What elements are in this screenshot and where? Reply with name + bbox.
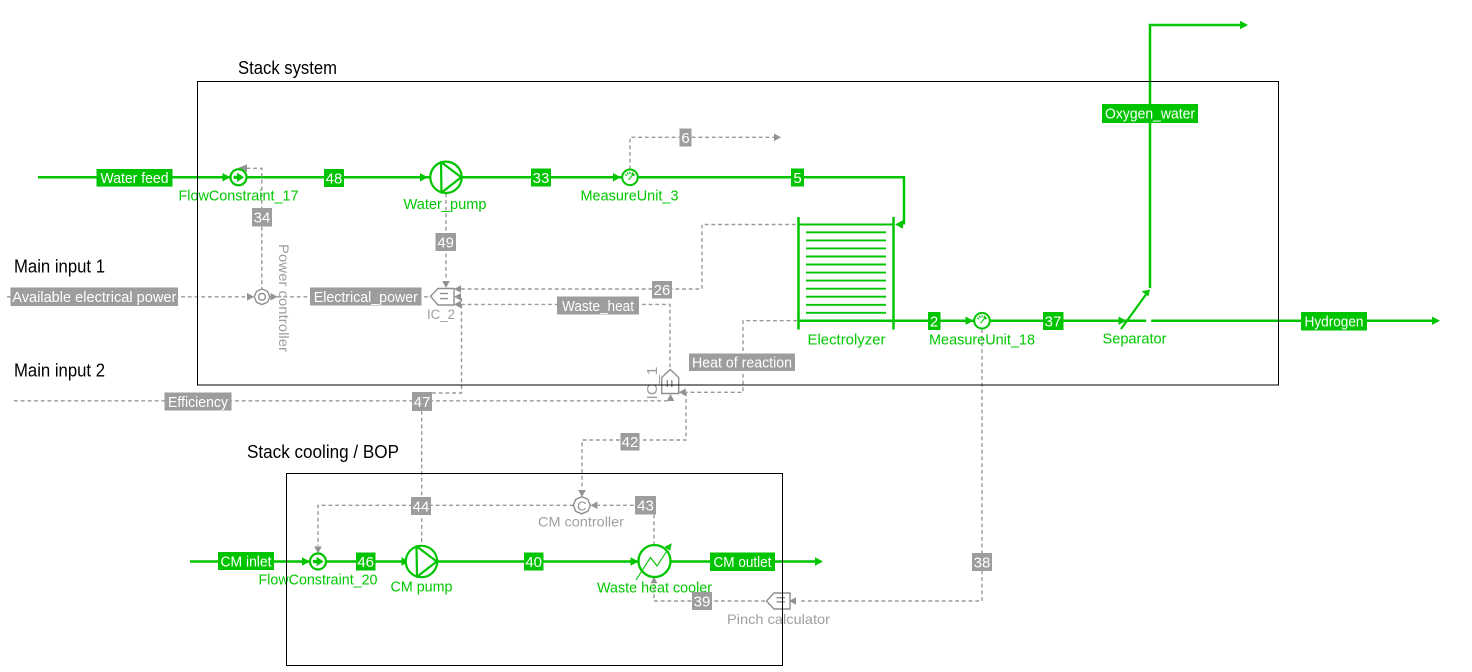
node tag 33	[531, 169, 551, 188]
svg-text:6: 6	[681, 130, 689, 147]
wire Power controller up to FlowConstraint_17	[247, 168, 262, 289]
svg-text:MeasureUnit_18: MeasureUnit_18	[929, 333, 1035, 349]
arrow into FlowConstraint_17	[223, 173, 231, 181]
node Water feed	[97, 169, 173, 187]
wire MeasureUnit_18 down link 38	[800, 329, 982, 601]
arrow into CM pump	[402, 557, 410, 565]
svg-text:CM outlet: CM outlet	[714, 554, 773, 571]
svg-text:Water_pump: Water_pump	[404, 197, 487, 213]
wire 47 link IC_2 to CM pump	[432, 298, 462, 393]
svg-text:47: 47	[414, 394, 431, 411]
node CM inlet	[218, 552, 274, 571]
node tag 34	[252, 208, 272, 227]
svg-text:42: 42	[622, 434, 639, 451]
node tag 39	[692, 592, 712, 611]
svg-text:FlowConstraint_17: FlowConstraint_17	[179, 189, 299, 205]
node tag 37	[1043, 312, 1064, 331]
arrow hydrogen line end	[1432, 317, 1440, 325]
node Hydrogen	[1301, 312, 1367, 331]
svg-text:Pinch calculator: Pinch calculator	[727, 611, 830, 627]
component FlowConstraint_20	[310, 554, 326, 570]
component IC_2	[431, 289, 455, 306]
component MeasureUnit_18 gauge	[974, 313, 990, 329]
wire MeasureUnit_3 up link 6	[630, 137, 774, 169]
svg-text:5: 5	[793, 170, 801, 187]
svg-text:37: 37	[1045, 314, 1062, 331]
arrow gray into Power controller	[247, 293, 254, 301]
wire 43 link Waste heat cooler to CM controller	[598, 505, 654, 545]
node tag 6	[680, 129, 692, 148]
svg-text:Stack system: Stack system	[238, 57, 337, 78]
arrow into FlowConstraint_20	[302, 557, 310, 565]
component Pinch calculator	[767, 593, 791, 609]
svg-text:CM inlet: CM inlet	[221, 554, 273, 571]
node Efficiency	[165, 393, 232, 412]
node Waste_heat	[557, 297, 639, 316]
arrow into Water pump	[420, 173, 428, 181]
svg-text:2: 2	[930, 314, 938, 331]
svg-text:Stack cooling / BOP: Stack cooling / BOP	[247, 441, 399, 462]
svg-text:26: 26	[654, 282, 671, 299]
arrow into MeasureUnit_18	[966, 317, 974, 325]
arrow gray out of Power controller right	[271, 293, 278, 301]
component FlowConstraint_17	[231, 169, 247, 185]
wire 44 link CM controller to FlowConstraint_20	[318, 505, 574, 546]
svg-text:Water feed: Water feed	[101, 170, 169, 187]
node tag 26	[652, 281, 672, 299]
svg-text:46: 46	[357, 554, 374, 571]
node tag 46	[356, 553, 376, 572]
wire Efficiency to IC_1	[14, 400, 671, 402]
wire 26 link Electrolyzer to IC_2	[461, 225, 797, 290]
component Waste heat cooler	[636, 543, 672, 580]
node tag 38	[972, 553, 992, 572]
wire 47 drop to CM pump	[421, 411, 423, 545]
wire Power controller to Electrical_power to IC_2	[270, 296, 430, 298]
arrow gray into FlowConstraint_17 top	[238, 164, 248, 172]
wire Waste_heat link IC_1 to IC_2	[461, 304, 670, 368]
svg-text:Available electrical power: Available electrical power	[12, 289, 176, 306]
component MeasureUnit_3 gauge	[622, 170, 638, 186]
component Electrolyzer	[799, 217, 895, 330]
wire hydrogen output line	[799, 319, 1439, 322]
svg-text:Main input 1: Main input 1	[14, 256, 105, 277]
wire oxygen riser	[1150, 25, 1246, 288]
node tag 47	[412, 392, 432, 411]
arrow oxygen line end	[1240, 21, 1248, 29]
node tag 49	[436, 233, 457, 252]
arrow gray into IC_2 right lower (Waste_heat)	[454, 301, 461, 309]
node Heat of reaction	[689, 354, 795, 372]
arrow into MeasureUnit_3	[613, 173, 621, 181]
svg-text:Electrolyzer: Electrolyzer	[808, 333, 886, 349]
arrow CM outlet line end	[815, 557, 823, 565]
svg-text:Electrical_power: Electrical_power	[314, 289, 418, 306]
svg-text:Heat of reaction: Heat of reaction	[692, 355, 792, 372]
wire Water pump down to IC_2	[445, 193, 447, 280]
svg-text:43: 43	[637, 498, 654, 515]
arrow gray into Pinch calculator right	[789, 597, 796, 605]
svg-text:CM pump: CM pump	[391, 580, 453, 596]
svg-text:Hydrogen: Hydrogen	[1305, 314, 1364, 331]
component Power controller	[253, 287, 272, 306]
svg-text:Oxygen_water: Oxygen_water	[1105, 106, 1195, 123]
arrow into Electrolyzer top	[895, 220, 903, 228]
arrow gray into IC_2 right upper (26)	[454, 285, 461, 293]
svg-text:Main input 2: Main input 2	[14, 360, 105, 381]
wire Pinch calculator to Waste heat cooler	[654, 584, 765, 601]
node tag 43	[635, 496, 656, 515]
svg-text:Power controller: Power controller	[276, 244, 292, 352]
svg-text:34: 34	[254, 210, 271, 227]
arrow gray link 6 end	[774, 134, 781, 142]
node tag 48	[324, 169, 344, 188]
svg-text:39: 39	[694, 594, 711, 611]
wire water feed main line	[38, 177, 904, 224]
node tag 5	[791, 169, 804, 188]
svg-text:CM controller: CM controller	[538, 514, 624, 530]
svg-text:Efficiency: Efficiency	[168, 394, 228, 411]
svg-text:IC_2: IC_2	[427, 307, 455, 322]
arrow gray into FlowConstraint_20 top	[314, 547, 322, 554]
svg-text:MeasureUnit_3: MeasureUnit_3	[581, 189, 679, 205]
arrow gray into CM controller top	[578, 490, 586, 497]
component IC_1 house	[662, 370, 679, 394]
svg-text:IC_1: IC_1	[644, 367, 661, 400]
svg-text:48: 48	[326, 171, 343, 188]
wire Heat of reaction link Electrolyzer to IC_1	[685, 321, 797, 393]
arrow gray into Waste heat cooler bottom	[651, 577, 658, 584]
component Water pump	[430, 162, 461, 193]
arrow gray at IC_2 right middle (47)	[454, 293, 461, 301]
svg-text:33: 33	[533, 170, 550, 187]
svg-text:38: 38	[974, 555, 991, 572]
arrow into Waste heat cooler	[631, 557, 639, 565]
wire 42 branch to CM controller	[582, 392, 686, 489]
node Oxygen_water	[1102, 104, 1198, 123]
node Available electrical power	[11, 288, 179, 307]
node CM outlet	[710, 553, 775, 572]
component CM pump	[406, 546, 437, 577]
node tag 2	[928, 312, 941, 331]
arrow gray into IC_2 top	[442, 281, 450, 288]
arrow gray into IC_1 bottom (Efficiency)	[667, 394, 675, 401]
frame Stack cooling / BOP	[287, 474, 783, 666]
arrow gray into IC_1 right	[679, 389, 686, 397]
svg-text:FlowConstraint_20: FlowConstraint_20	[259, 573, 378, 589]
svg-text:Waste_heat: Waste_heat	[562, 298, 635, 315]
wire CM cooling line	[190, 560, 821, 563]
node tag 44	[411, 497, 431, 516]
svg-text:49: 49	[437, 235, 454, 252]
node tag 40	[524, 553, 544, 572]
wire Available electrical power to Power controller	[7, 296, 246, 298]
svg-text:44: 44	[413, 499, 430, 516]
svg-text:40: 40	[525, 554, 542, 571]
component CM controller	[571, 495, 592, 516]
svg-text:C: C	[577, 498, 586, 513]
component Separator	[1121, 290, 1151, 330]
arrow gray into CM controller right	[591, 502, 598, 510]
frame Stack system	[198, 82, 1279, 386]
svg-text:Separator: Separator	[1103, 332, 1167, 348]
arrow into Separator	[1119, 317, 1127, 325]
node Electrical_power	[310, 288, 422, 307]
node tag 42	[621, 433, 640, 451]
